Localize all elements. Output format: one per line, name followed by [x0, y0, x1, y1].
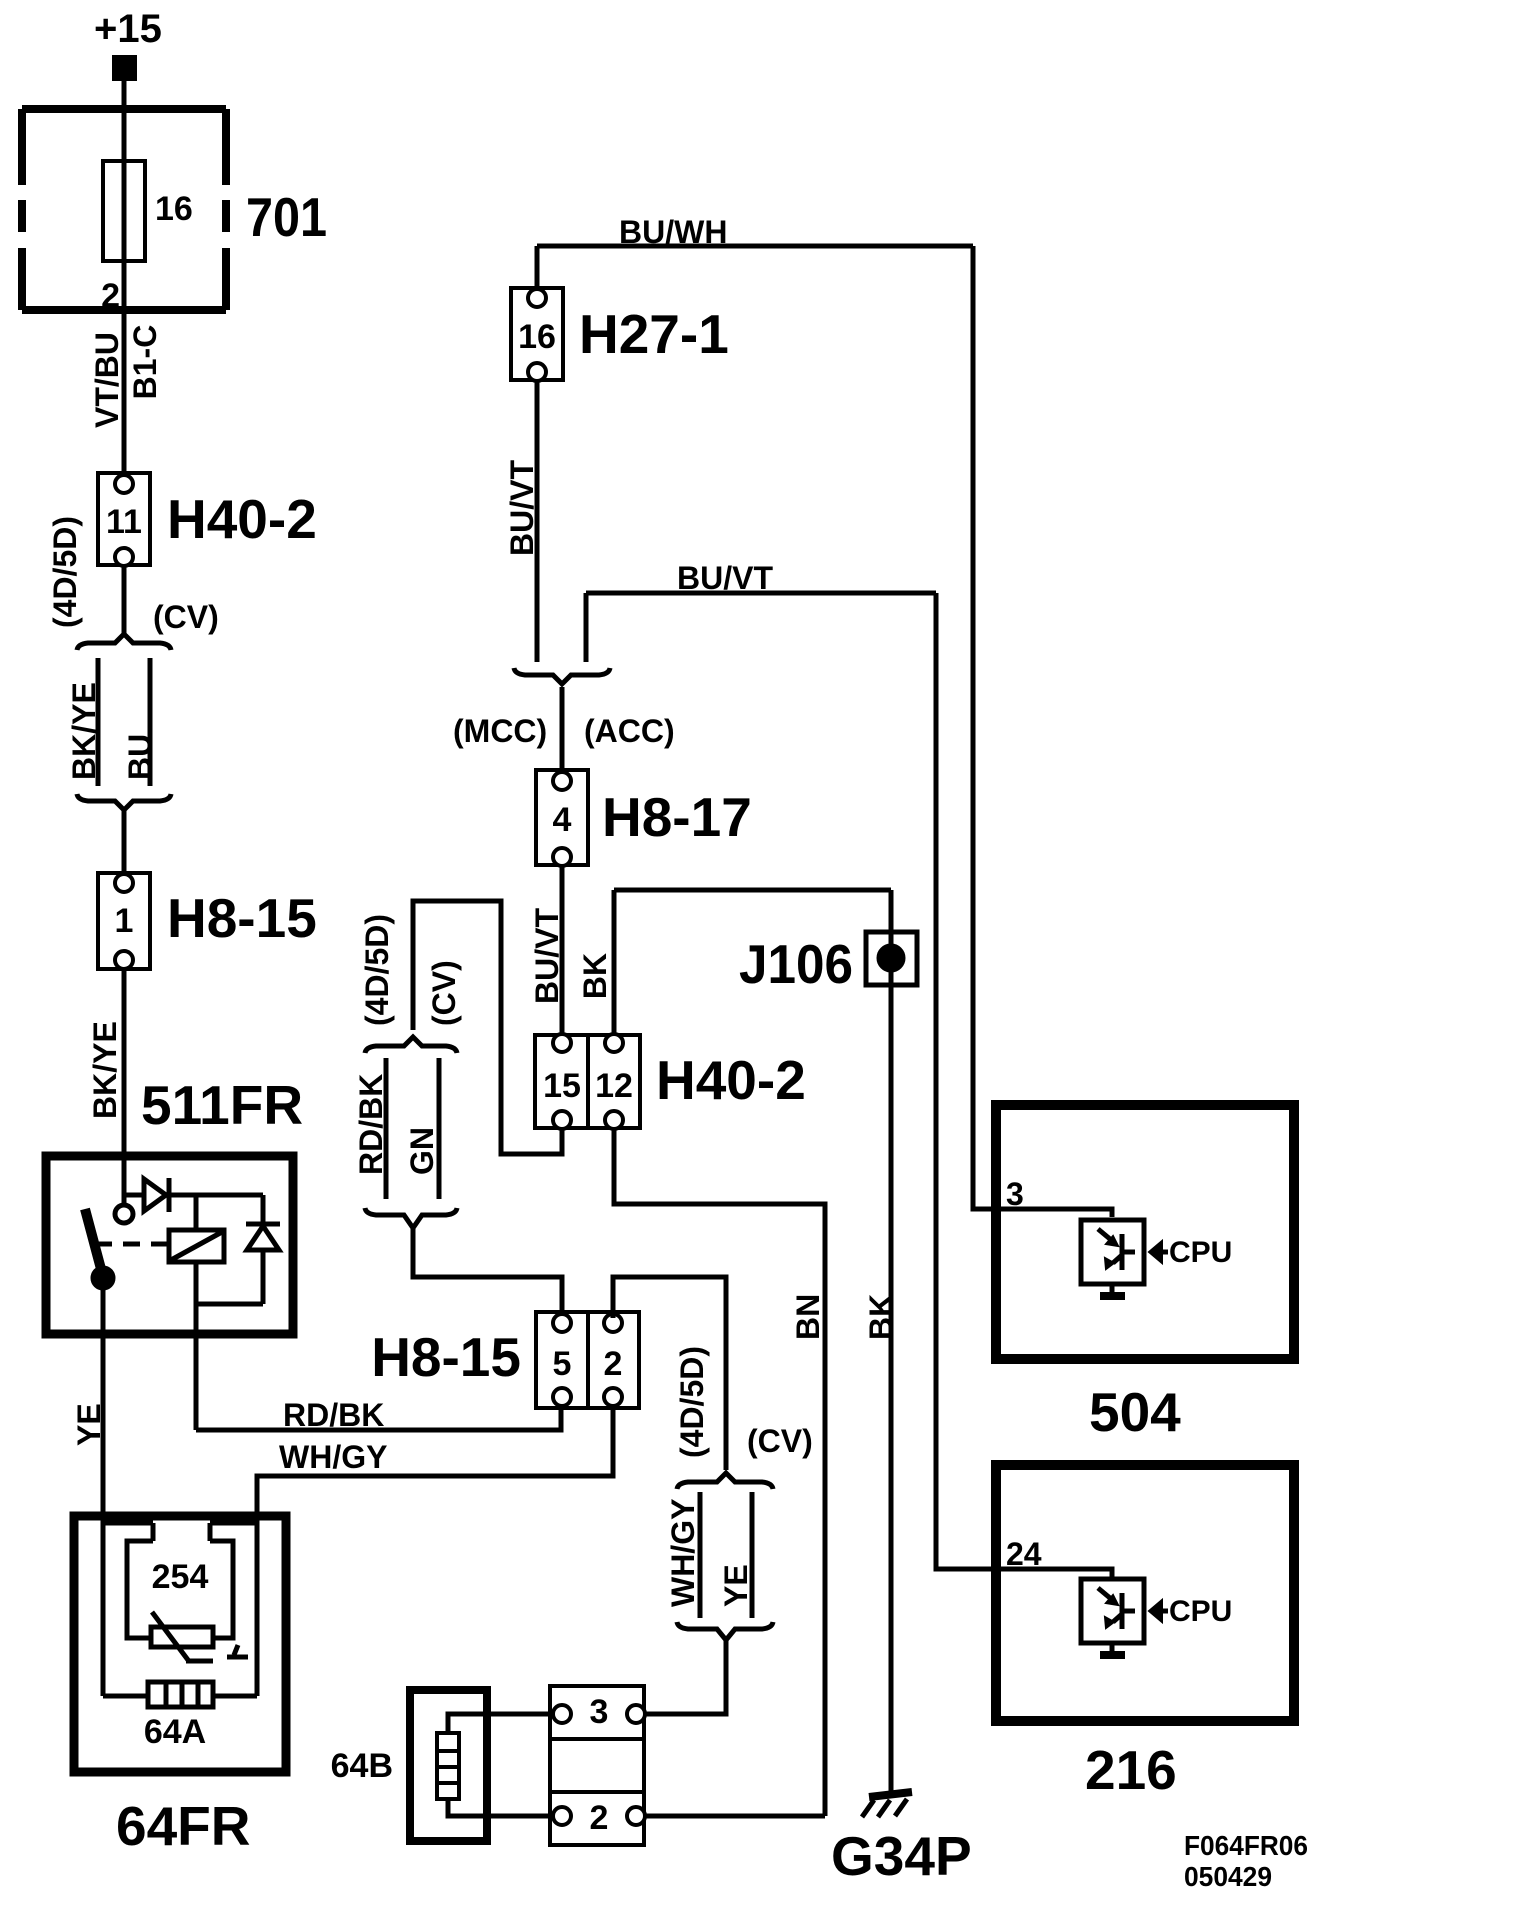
svg-text:64FR: 64FR: [116, 1795, 251, 1857]
svg-text:YE: YE: [718, 1564, 754, 1607]
svg-text:(CV): (CV): [426, 960, 462, 1026]
svg-text:15: 15: [543, 1067, 581, 1105]
svg-text:BK: BK: [577, 953, 613, 999]
svg-text:16: 16: [155, 190, 193, 228]
svg-text:(4D/5D): (4D/5D): [674, 1346, 710, 1458]
svg-text:3: 3: [590, 1693, 609, 1731]
svg-text:BU/VT: BU/VT: [529, 908, 565, 1004]
svg-text:BK: BK: [863, 1294, 899, 1340]
svg-text:VT/BU: VT/BU: [89, 332, 125, 428]
svg-text:BU: BU: [122, 734, 158, 780]
svg-text:CPU: CPU: [1169, 1236, 1232, 1269]
svg-text:H40-2: H40-2: [656, 1049, 806, 1111]
svg-text:3: 3: [1006, 1176, 1024, 1212]
svg-text:(4D/5D): (4D/5D): [47, 516, 83, 628]
svg-text:504: 504: [1089, 1381, 1181, 1443]
svg-text:(CV): (CV): [153, 599, 219, 635]
svg-text:B1-C: B1-C: [127, 325, 163, 400]
svg-text:050429: 050429: [1184, 1861, 1272, 1892]
svg-text:H8-15: H8-15: [371, 1326, 521, 1388]
svg-text:BU/VT: BU/VT: [504, 460, 540, 556]
svg-text:216: 216: [1085, 1739, 1177, 1801]
svg-text:+15: +15: [94, 7, 162, 51]
svg-text:(MCC): (MCC): [453, 713, 547, 749]
svg-text:(4D/5D): (4D/5D): [359, 914, 395, 1026]
svg-text:1: 1: [115, 902, 134, 940]
svg-text:511FR: 511FR: [141, 1074, 303, 1136]
svg-text:H27-1: H27-1: [579, 303, 729, 365]
svg-text:BK/YE: BK/YE: [66, 682, 102, 780]
svg-text:BN: BN: [790, 1294, 826, 1340]
svg-text:H8-15: H8-15: [167, 887, 317, 949]
svg-text:2: 2: [590, 1799, 609, 1837]
svg-text:F064FR06: F064FR06: [1184, 1830, 1308, 1861]
svg-text:J106: J106: [739, 933, 853, 995]
svg-text:RD/BK: RD/BK: [353, 1074, 389, 1175]
svg-text:2: 2: [101, 277, 120, 315]
svg-text:64A: 64A: [144, 1713, 206, 1751]
svg-text:BU/VT: BU/VT: [677, 560, 773, 596]
svg-text:GN: GN: [404, 1127, 440, 1175]
svg-text:24: 24: [1006, 1536, 1042, 1572]
svg-text:BU/WH: BU/WH: [619, 214, 727, 250]
svg-text:(CV): (CV): [747, 1423, 813, 1459]
svg-text:(ACC): (ACC): [584, 713, 675, 749]
svg-text:G34P: G34P: [831, 1825, 972, 1887]
svg-text:701: 701: [246, 186, 327, 248]
svg-text:WH/GY: WH/GY: [665, 1499, 701, 1607]
svg-text:12: 12: [595, 1067, 633, 1105]
svg-text:16: 16: [518, 318, 556, 356]
svg-text:H40-2: H40-2: [167, 488, 317, 550]
svg-text:64B: 64B: [331, 1747, 393, 1785]
svg-text:CPU: CPU: [1169, 1595, 1232, 1628]
svg-text:BK/YE: BK/YE: [87, 1021, 123, 1119]
svg-text:YE: YE: [71, 1403, 107, 1446]
svg-text:4: 4: [553, 801, 572, 839]
svg-text:RD/BK: RD/BK: [283, 1397, 384, 1433]
svg-text:5: 5: [553, 1345, 572, 1383]
svg-text:11: 11: [106, 503, 142, 541]
svg-text:H8-17: H8-17: [602, 786, 752, 848]
svg-text:WH/GY: WH/GY: [279, 1439, 387, 1475]
svg-text:254: 254: [152, 1558, 209, 1596]
svg-text:2: 2: [604, 1345, 623, 1383]
